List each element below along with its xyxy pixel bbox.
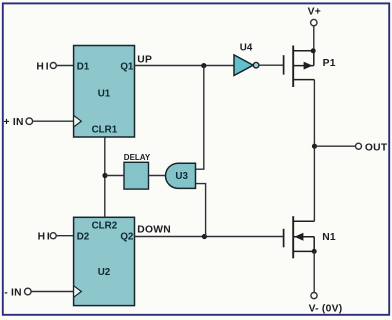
- wire UP (Q1 to U4 input): [135, 65, 235, 67]
- junction dot UP node: [201, 63, 206, 68]
- svg-text:V- (0V): V- (0V): [309, 304, 343, 315]
- svg-text:HI: HI: [36, 61, 50, 72]
- svg-text:- IN: - IN: [4, 287, 22, 298]
- svg-text:Q1: Q1: [120, 61, 134, 72]
- wire +IN to U1 clock: [33, 120, 74, 122]
- wire OUT node to OUT terminal: [315, 145, 356, 147]
- svg-text:U1: U1: [98, 89, 111, 100]
- svg-text:+ IN: + IN: [4, 117, 24, 128]
- wire U4 output to P1 gate: [259, 64, 283, 66]
- svg-text:U2: U2: [98, 267, 111, 278]
- wire UP node down to U3 input A: [196, 66, 204, 170]
- svg-text:DELAY: DELAY: [124, 153, 151, 162]
- inverter U4: [234, 42, 259, 75]
- svg-text:Q2: Q2: [120, 232, 134, 243]
- svg-text:OUT: OUT: [365, 142, 388, 153]
- terminal HI (U2): [38, 232, 57, 243]
- terminal HI (U1): [36, 61, 56, 72]
- svg-text:U3: U3: [175, 171, 188, 182]
- svg-text:CLR2: CLR2: [92, 221, 118, 232]
- wire HI1 to D1: [56, 65, 73, 67]
- svg-text:HI: HI: [38, 232, 52, 243]
- wire V+ to P1 source: [313, 26, 315, 51]
- svg-text:P1: P1: [323, 58, 336, 69]
- wire -IN to U2 clock: [31, 291, 74, 293]
- junction dot OUT node: [312, 144, 317, 149]
- and-gate U3: [166, 163, 196, 188]
- svg-text:DOWN: DOWN: [137, 225, 171, 236]
- wire CLR node to DELAY: [105, 175, 124, 177]
- delay block: [124, 162, 149, 189]
- transistor N1: [284, 216, 336, 258]
- wire P1 drain to N1 drain: [313, 80, 315, 222]
- terminal - IN: [4, 287, 31, 298]
- wire N1 source to V-: [313, 251, 315, 292]
- terminal V+: [308, 7, 321, 26]
- terminal OUT: [356, 142, 388, 153]
- svg-text:U4: U4: [240, 42, 253, 53]
- wire DOWN (Q2 to N1 gate): [135, 236, 284, 238]
- wire DELAY to U3 output: [149, 175, 167, 177]
- flip-flop U1: [74, 46, 135, 138]
- terminal + IN: [4, 117, 33, 128]
- wire CLR bus (CLR1 to CLR2): [104, 137, 106, 217]
- wire HI2 to D2: [56, 235, 73, 237]
- svg-text:D2: D2: [77, 232, 90, 243]
- svg-text:UP: UP: [137, 54, 152, 65]
- svg-text:D1: D1: [77, 61, 90, 72]
- transistor P1: [284, 46, 336, 88]
- wire U3 input B down to DOWN node: [196, 184, 206, 237]
- junction dot DOWN node: [202, 234, 207, 239]
- svg-text:V+: V+: [308, 7, 321, 18]
- svg-text:N1: N1: [322, 232, 336, 243]
- terminal V- (0V): [309, 293, 343, 315]
- junction dot CLR node: [102, 173, 107, 178]
- flip-flop U2: [74, 217, 135, 305]
- svg-text:CLR1: CLR1: [92, 125, 118, 136]
